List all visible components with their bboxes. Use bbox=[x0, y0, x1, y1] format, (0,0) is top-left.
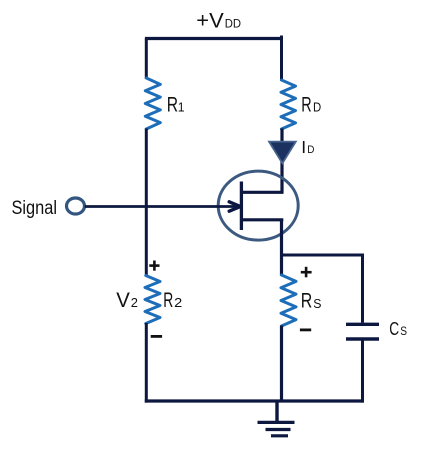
svg-text:+V: +V bbox=[196, 9, 224, 33]
ground bbox=[258, 401, 295, 436]
svg-text:I: I bbox=[301, 137, 306, 157]
wire RS to ground rail bbox=[280, 326, 283, 402]
current arrow ID bbox=[269, 142, 296, 164]
svg-text:2: 2 bbox=[174, 295, 182, 310]
transistor drain lead (horizontal) bbox=[240, 191, 283, 194]
svg-text:D: D bbox=[307, 144, 314, 156]
label R1 bbox=[167, 94, 185, 117]
wire right branch top (VDD rail to RD) bbox=[280, 36, 283, 82]
svg-text:S: S bbox=[313, 297, 321, 311]
svg-text:R: R bbox=[163, 289, 173, 312]
capacitor CS top plate bbox=[346, 323, 379, 326]
svg-text:D: D bbox=[313, 100, 321, 114]
svg-text:2: 2 bbox=[131, 295, 138, 310]
transistor source lead (horizontal) bbox=[240, 218, 283, 221]
svg-text:S: S bbox=[400, 324, 407, 338]
plus mark above R2 bbox=[149, 261, 159, 271]
minus mark below R2 bbox=[151, 335, 162, 338]
svg-text:R: R bbox=[301, 290, 313, 313]
label RD bbox=[301, 93, 321, 116]
gate arrowhead bbox=[229, 202, 240, 211]
svg-text:C: C bbox=[389, 318, 399, 339]
resistor R1 bbox=[145, 78, 160, 129]
label ID bbox=[301, 137, 314, 157]
node +VDD label bbox=[196, 9, 241, 33]
signal input terminal (open circle) bbox=[67, 198, 85, 214]
wire left branch lower (R2 to ground rail) bbox=[145, 323, 148, 403]
svg-text:1: 1 bbox=[178, 100, 185, 115]
label V2 bbox=[116, 289, 138, 312]
wire CS branch vertical lower bbox=[361, 341, 364, 403]
resistor R2 bbox=[145, 276, 160, 324]
wire left branch middle (R1 to R2) bbox=[145, 129, 148, 277]
plus mark above RS bbox=[301, 267, 312, 278]
svg-text:V: V bbox=[116, 289, 130, 312]
wire bottom ground rail bbox=[145, 399, 364, 402]
wire CS branch vertical upper bbox=[361, 254, 364, 323]
wire signal line to gate bbox=[85, 205, 240, 208]
label RS bbox=[301, 290, 322, 313]
wire RD to transistor drain bbox=[280, 129, 283, 194]
wire left branch upper (VDD rail to R1) bbox=[145, 39, 148, 80]
transistor (n-channel MOSFET) body circle bbox=[218, 171, 298, 240]
wire source node to CS branch (horizontal) bbox=[280, 254, 363, 257]
svg-text:Signal: Signal bbox=[12, 198, 58, 219]
wire transistor source down to RS bbox=[280, 219, 283, 277]
svg-text:DD: DD bbox=[225, 17, 241, 31]
svg-text:R: R bbox=[167, 94, 178, 117]
resistor RD bbox=[281, 80, 296, 129]
capacitor CS bottom plate bbox=[346, 337, 379, 340]
transistor gate bar bbox=[240, 182, 243, 231]
minus mark below RS bbox=[300, 328, 311, 331]
wire top VDD rail bbox=[147, 39, 282, 41]
svg-text:R: R bbox=[301, 93, 311, 116]
resistor RS bbox=[281, 275, 296, 326]
label R2 bbox=[163, 289, 182, 312]
label CS bbox=[389, 318, 407, 339]
